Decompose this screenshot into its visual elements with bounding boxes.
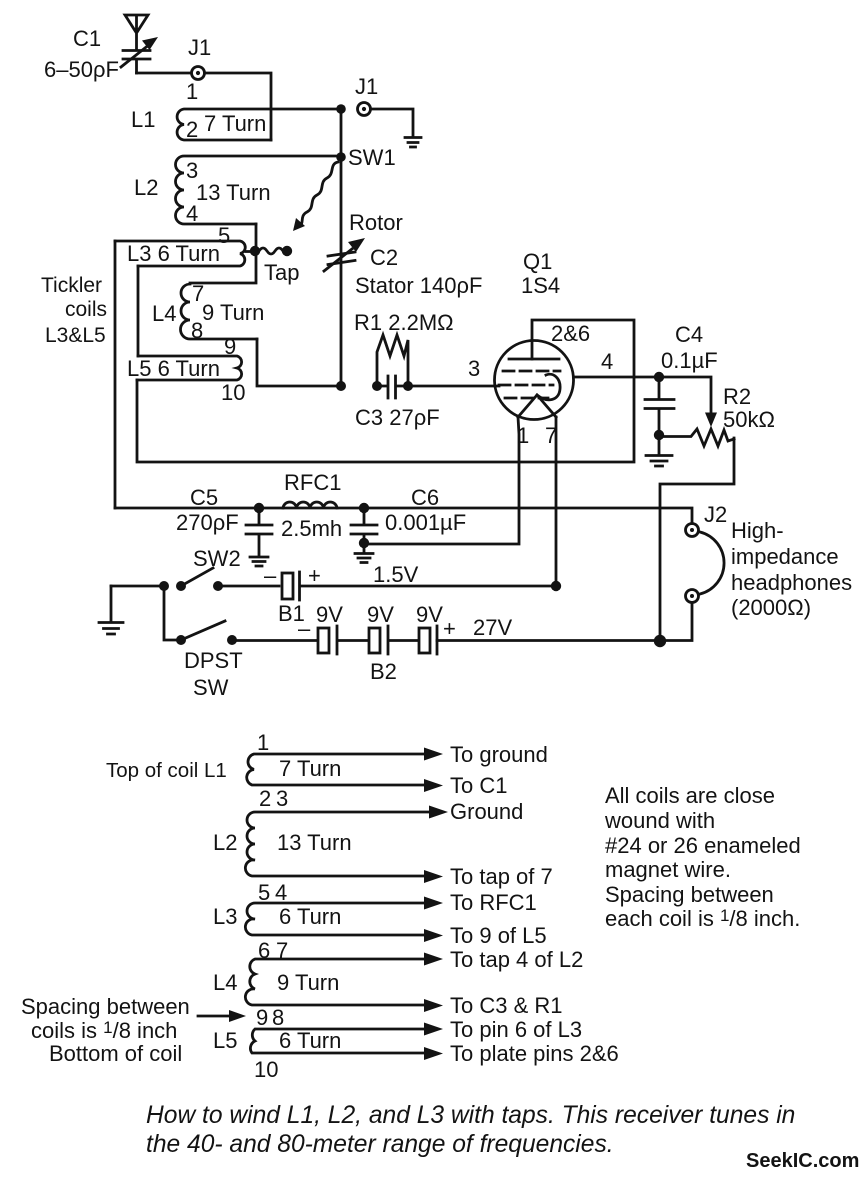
connector J2 top [686, 502, 728, 537]
svg-text:2.5mh: 2.5mh [281, 516, 342, 541]
ground SW2 left [99, 586, 123, 634]
svg-text:L1: L1 [131, 107, 155, 132]
winding diagram coil L5 [213, 1023, 443, 1083]
winding labels right column [450, 742, 619, 1066]
svg-text:All coils are close: All coils are close [605, 783, 775, 808]
svg-text:Q1: Q1 [523, 249, 552, 274]
svg-text:R1 2.2MΩ: R1 2.2MΩ [354, 310, 454, 335]
svg-text:L4: L4 [152, 301, 176, 326]
svg-text:9 Turn: 9 Turn [202, 300, 264, 325]
svg-text:2&6: 2&6 [551, 321, 590, 346]
wire L2 pin4 down to tap [255, 224, 258, 247]
svg-text:C4: C4 [675, 322, 703, 347]
svg-text:coils: coils [65, 298, 107, 321]
caption [146, 1102, 795, 1158]
svg-text:How to wind L1, L2, and L3 wit: How to wind L1, L2, and L3 with taps. Th… [146, 1102, 795, 1129]
antenna [125, 15, 148, 50]
wire main vertical SW1/C2 [340, 109, 343, 386]
wire ground to SW2 [111, 585, 160, 588]
svg-text:3: 3 [468, 356, 480, 381]
coil L4 9 Turn [152, 281, 264, 343]
svg-text:R2: R2 [723, 384, 751, 409]
resistor R1 [354, 310, 454, 382]
svg-text:C6: C6 [411, 485, 439, 510]
svg-text:9 Turn: 9 Turn [277, 970, 339, 995]
svg-text:To plate pins 2&6: To plate pins 2&6 [450, 1041, 619, 1066]
svg-text:To tap 4 of L2: To tap 4 of L2 [450, 947, 583, 972]
svg-text:L5 6 Turn: L5 6 Turn [127, 356, 220, 381]
svg-text:3: 3 [276, 786, 288, 811]
svg-text:To C3 & R1: To C3 & R1 [450, 993, 563, 1018]
svg-text:4: 4 [601, 349, 613, 374]
svg-text:To C1: To C1 [450, 773, 507, 798]
svg-text:To ground: To ground [450, 742, 548, 767]
wire J1 to ground [371, 109, 414, 136]
svg-text:impedance: impedance [731, 544, 839, 569]
svg-text:High-: High- [731, 518, 784, 543]
ground below C4 [646, 440, 672, 466]
label spacing between coils [21, 994, 246, 1066]
headphone arc [700, 532, 724, 594]
wire C4 top to R2 wiper [664, 377, 712, 417]
tube plate bar [509, 358, 559, 361]
svg-text:Spacing between: Spacing between [605, 882, 774, 907]
svg-text:+: + [308, 563, 321, 588]
label C1 value [44, 26, 119, 82]
svg-text:–: – [264, 563, 277, 588]
svg-text:10: 10 [221, 380, 245, 405]
wire R2 return to 27V line [660, 438, 734, 635]
inductor RFC1 [281, 470, 342, 541]
svg-text:8: 8 [191, 318, 203, 343]
wire SW2 to B1 [223, 585, 280, 588]
svg-text:Spacing between: Spacing between [21, 994, 190, 1019]
svg-text:Stator 140ρF: Stator 140ρF [355, 273, 482, 298]
svg-text:B2: B2 [370, 659, 397, 684]
svg-text:RFC1: RFC1 [284, 470, 341, 495]
svg-text:SW1: SW1 [348, 145, 396, 170]
tube grid dashes [499, 371, 560, 398]
switch SW1 [336, 145, 395, 170]
tap (dots and wavy link) [246, 246, 299, 285]
svg-text:Tap: Tap [264, 260, 299, 285]
wire RFC line [115, 508, 692, 524]
svg-text:7: 7 [545, 423, 557, 448]
svg-text:270ρF: 270ρF [176, 510, 239, 535]
svg-text:–: – [298, 616, 311, 641]
svg-text:L3&L5: L3&L5 [45, 324, 106, 347]
tube filament [518, 374, 560, 417]
svg-text:Top of coil L1: Top of coil L1 [106, 759, 227, 782]
svg-text:10: 10 [254, 1057, 278, 1082]
connector J2 bottom [686, 590, 699, 603]
pin labels 1 7 [517, 423, 557, 448]
wire plate pin4 to C4 [574, 376, 655, 379]
wavy wiper from SW1 to tap [293, 162, 338, 231]
svg-text:13 Turn: 13 Turn [277, 830, 352, 855]
svg-text:L2: L2 [134, 175, 158, 200]
capacitor C6 [351, 485, 466, 538]
coil L1 7 Turn [131, 107, 337, 142]
svg-text:4: 4 [275, 880, 287, 905]
wire pin7 to 1.5V line [555, 417, 558, 586]
ground below C5 [250, 557, 268, 566]
tube Q1 envelope [495, 341, 574, 420]
svg-text:C2: C2 [370, 245, 398, 270]
svg-text:1: 1 [186, 79, 198, 104]
resistor R2 [664, 384, 775, 446]
wire 1.5V line to pin7 [300, 585, 556, 588]
connector J1 (antenna jack) [188, 35, 211, 80]
svg-text:2: 2 [186, 117, 198, 142]
battery B2 (three 9V cells) [298, 602, 512, 684]
capacitor C4 [645, 322, 718, 430]
svg-text:(2000Ω): (2000Ω) [731, 595, 811, 620]
coil L5 6 Turn [127, 356, 245, 405]
junction C2 bottom [336, 381, 346, 391]
svg-text:27V: 27V [473, 615, 512, 640]
svg-text:To pin 6 of L3: To pin 6 of L3 [450, 1017, 582, 1042]
label headphones [731, 518, 852, 620]
winding diagram coil L3 [213, 897, 443, 964]
svg-text:9V: 9V [416, 602, 443, 627]
winding diagram coil L4 [213, 953, 443, 1031]
junction C6 bottom [359, 538, 369, 548]
capacitor C1 (variable) [121, 37, 158, 73]
coil L2 13 Turn [134, 156, 337, 226]
svg-text:6 Turn: 6 Turn [279, 904, 341, 929]
ground (top right) [405, 138, 421, 148]
switch SW2 [159, 546, 241, 591]
svg-text:wound with: wound with [604, 808, 715, 833]
wire L3 pin6 down to L5 [137, 266, 140, 356]
junction C5 [254, 503, 264, 513]
wire L4 pin8 down to C3 line [257, 339, 337, 386]
junction 27V headphones [654, 635, 666, 647]
svg-text:9V: 9V [316, 602, 343, 627]
wire C1 to J1 [137, 72, 192, 75]
svg-text:5: 5 [258, 880, 270, 905]
wire DPST to B2 [237, 639, 318, 642]
svg-text:each coil is 1/8 inch.: each coil is 1/8 inch. [605, 906, 800, 931]
svg-text:1.5V: 1.5V [373, 562, 419, 587]
svg-text:0.1µF: 0.1µF [661, 348, 718, 373]
ground below C6 [355, 548, 373, 563]
svg-text:To 9 of L5: To 9 of L5 [450, 923, 547, 948]
svg-text:13 Turn: 13 Turn [196, 180, 271, 205]
svg-text:SW2: SW2 [193, 546, 241, 571]
svg-text:7 Turn: 7 Turn [204, 111, 266, 136]
svg-text:SeekIC.com: SeekIC.com [746, 1150, 859, 1172]
label Q1 1S4 [521, 249, 560, 298]
R2 wiper arrow [705, 413, 717, 428]
label tickler coils [41, 274, 107, 347]
junction C4 bottom [654, 430, 664, 440]
connector J1 (ground jack) [355, 74, 378, 116]
wire J1 to L1 right edge [205, 73, 272, 140]
svg-text:SW: SW [193, 675, 229, 700]
svg-text:J1: J1 [355, 74, 378, 99]
svg-text:C1: C1 [73, 26, 101, 51]
coil L3 6 Turn [115, 241, 245, 266]
capacitor C5 [176, 485, 272, 556]
winding diagram coil L1 [247, 730, 443, 811]
svg-text:C3 27ρF: C3 27ρF [355, 405, 440, 430]
svg-text:L3: L3 [213, 904, 237, 929]
svg-text:L2: L2 [213, 830, 237, 855]
svg-text:6–50ρF: 6–50ρF [44, 57, 119, 82]
svg-text:7 Turn: 7 Turn [279, 756, 341, 781]
svg-text:2: 2 [259, 786, 271, 811]
svg-text:1S4: 1S4 [521, 273, 560, 298]
svg-text:To tap of 7: To tap of 7 [450, 864, 553, 889]
wire pin1 to C6 bottom [364, 417, 519, 544]
svg-text:#24 or 26 enameled: #24 or 26 enameled [605, 833, 801, 858]
wire left long L3 pin5 down [114, 241, 117, 508]
junction C4 top [654, 372, 664, 382]
junction pin7 battery [551, 581, 561, 591]
svg-text:6 Turn: 6 Turn [279, 1028, 341, 1053]
svg-text:Rotor: Rotor [349, 210, 403, 235]
svg-text:J2: J2 [704, 502, 727, 527]
svg-text:headphones: headphones [731, 570, 852, 595]
svg-text:9: 9 [256, 1005, 268, 1030]
svg-text:C5: C5 [190, 485, 218, 510]
battery B1 [264, 563, 321, 626]
svg-text:50kΩ: 50kΩ [723, 407, 775, 432]
svg-text:J1: J1 [188, 35, 211, 60]
switch DPST lower pole [176, 621, 243, 700]
capacitor C3 [355, 376, 440, 430]
svg-text:Ground: Ground [450, 799, 523, 824]
svg-text:L5: L5 [213, 1028, 237, 1053]
svg-text:L4: L4 [213, 970, 237, 995]
wire C3 to grid pin 3 [413, 385, 500, 388]
svg-text:0.001µF: 0.001µF [385, 510, 466, 535]
svg-text:To RFC1: To RFC1 [450, 890, 537, 915]
svg-text:+: + [443, 616, 456, 641]
svg-text:1: 1 [517, 423, 529, 448]
svg-text:L3 6 Turn: L3 6 Turn [127, 241, 220, 266]
winding diagram coil L2 [213, 806, 448, 906]
svg-text:magnet wire.: magnet wire. [605, 857, 731, 882]
svg-text:DPST: DPST [184, 648, 243, 673]
junction node at J1 ground [336, 104, 346, 114]
wire L5 pin10 to plate pins 2&6 box [137, 320, 634, 462]
wire 27V line [437, 603, 692, 641]
svg-text:9V: 9V [367, 602, 394, 627]
svg-text:the 40- and 80-meter range of: the 40- and 80-meter range of frequencie… [146, 1131, 614, 1158]
note all coils [604, 783, 801, 931]
svg-text:1: 1 [257, 730, 269, 755]
junction C6 [359, 503, 369, 513]
svg-text:Bottom of coil: Bottom of coil [49, 1041, 182, 1066]
svg-text:4: 4 [186, 201, 198, 226]
svg-text:Tickler: Tickler [41, 274, 102, 297]
svg-text:8: 8 [272, 1005, 284, 1030]
variable capacitor C2 [324, 210, 482, 298]
wire tap down to L4 pin7 [190, 255, 256, 283]
wire SW2 common down [164, 586, 176, 640]
